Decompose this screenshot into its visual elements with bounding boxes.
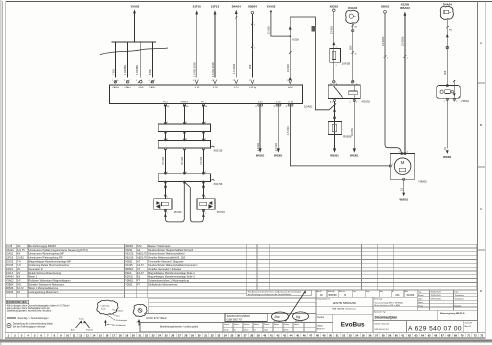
svg-text:1: 1: [167, 139, 168, 141]
svg-text:W5A03: W5A03: [400, 6, 410, 10]
svg-text:4: 4: [212, 80, 213, 82]
svg-text:10F1B: 10F1B: [6, 256, 14, 260]
svg-text:CAN-L: CAN-L: [149, 86, 156, 89]
svg-text:6: 6: [117, 80, 118, 82]
svg-text:Y5A02: Y5A02: [6, 278, 14, 282]
svg-text:Name: Name: [234, 324, 239, 326]
svg-text:Diez: Diez: [455, 292, 459, 294]
svg-text:Bearbeitungshinweise / zuletzt: Bearbeitungshinweise / zuletzt geänd.: [160, 326, 199, 329]
svg-text:76 OM: 76 OM: [180, 157, 184, 165]
svg-text:GND: GND: [139, 87, 144, 89]
svg-text:Y5A02: Y5A02: [266, 4, 275, 8]
svg-text:3: 3: [205, 172, 206, 174]
svg-text:15Y03: 15Y03: [217, 210, 226, 214]
svg-text:21F13: 21F13: [211, 4, 220, 8]
svg-text:1: 1: [167, 122, 168, 124]
svg-text:31: 31: [355, 54, 357, 56]
svg-text:Schwenkanschluss 1 Motorregelu: Schwenkanschluss 1 Motorregelung: [148, 278, 189, 282]
svg-text:K 30: K 30: [213, 87, 218, 89]
svg-text:A2: A2: [167, 105, 169, 108]
svg-text:1.5 RD-2005: 1.5 RD-2005: [193, 62, 197, 77]
svg-text:8: 8: [141, 80, 142, 82]
svg-text:13 916: 13 916: [330, 26, 334, 34]
svg-text:Nachtw: Nachtw: [455, 304, 462, 307]
svg-text:AB23.70: AB23.70: [137, 252, 147, 256]
svg-text:2: 2: [254, 48, 255, 50]
svg-text:2: 2: [186, 139, 187, 141]
svg-text:7: 7: [129, 80, 130, 82]
svg-text:5-M: 5-M: [137, 244, 141, 248]
svg-text:2: 2: [186, 172, 187, 174]
svg-text:1999-03-05: 1999-03-05: [431, 295, 442, 297]
svg-text:15Y02: 15Y02: [6, 259, 14, 263]
svg-text:X0203: X0203: [6, 290, 14, 294]
svg-text:Y0M01: Y0M01: [125, 278, 134, 282]
svg-text:CA600: CA600: [317, 324, 324, 327]
svg-text:Magnetklappe Motorbremsanlage: Magnetklappe Motorbremsanlage Stufe 2: [148, 271, 195, 275]
svg-text:PV +: PV +: [201, 101, 207, 103]
svg-text:X0201: X0201: [125, 248, 133, 252]
svg-text:K 15: K 15: [234, 87, 239, 89]
svg-text:X1205: X1205: [125, 263, 133, 267]
svg-text:X0203: X0203: [330, 4, 339, 8]
svg-text:7 BU: 7 BU: [111, 69, 115, 75]
svg-text:Tag: Tag: [418, 292, 421, 294]
svg-text:Y0501: Y0501: [125, 282, 133, 286]
svg-text:E1 A7: E1 A7: [137, 271, 144, 275]
svg-text:Prüfstempel: Prüfstempel: [116, 319, 128, 322]
svg-text:B: B: [480, 123, 482, 127]
svg-text:Y5A02: Y5A02: [130, 4, 139, 8]
svg-text:Bearb: Bearb: [418, 295, 424, 297]
svg-text:Steckverbinder Wabenschaltfeld: Steckverbinder Wabenschaltfeld Innenraum: [148, 263, 197, 267]
svg-text:A 30: A 30: [288, 86, 293, 89]
svg-text:15Y02: 15Y02: [174, 210, 183, 214]
svg-text:21-B2: 21-B2: [17, 256, 24, 260]
svg-text:9: 9: [154, 80, 155, 82]
svg-text:001: 001: [396, 294, 401, 297]
svg-text:EvoBus: EvoBus: [341, 321, 365, 328]
svg-text:006: 006: [248, 64, 252, 69]
svg-text:Dw.: Dw.: [275, 315, 281, 319]
svg-text:Thielmann: Thielmann: [455, 299, 464, 301]
svg-text:Amt: Amt: [71, 329, 75, 332]
svg-text:Alle Leitungen ohne Querschnit: Alle Leitungen ohne Querschnittsangaben …: [7, 304, 70, 307]
svg-text:Codierung Relais Stromverbrauc: Codierung Relais Stromverbraucher: [29, 263, 70, 267]
svg-text:Prüfdatum: Prüfdatum: [116, 324, 126, 327]
svg-text:4: 4: [149, 80, 150, 82]
svg-text:X63.56: X63.56: [214, 182, 223, 186]
svg-text:Magnetklappe Motorbremsanlage: Magnetklappe Motorbremsanlage Stufe 3: [148, 275, 195, 279]
svg-text:D4A04: D4A04: [6, 275, 14, 279]
svg-text:X5B04: X5B04: [6, 282, 14, 286]
svg-text:Bei Fahrzeugtyp 53/2/07: Bei Fahrzeugtyp 53/2/07: [29, 244, 57, 248]
svg-text:15Y03: 15Y03: [6, 263, 14, 267]
svg-text:SONDERZEICHEN:: SONDERZEICHEN:: [7, 302, 28, 304]
svg-text:1: 1: [407, 58, 408, 60]
svg-text:X63.55: X63.55: [125, 252, 134, 256]
svg-text:Datum: Datum: [284, 323, 290, 326]
svg-text:12.05: 12.05: [224, 329, 229, 331]
svg-text:Zeichn-Nr: Zeichn-Nr: [465, 322, 473, 325]
svg-text:Verteiler Wabenschaltfeld B. 1: Verteiler Wabenschaltfeld B. 15/1: [148, 256, 186, 260]
svg-text:21F13: 21F13: [6, 271, 14, 275]
svg-text:R0506: R0506: [6, 286, 14, 290]
svg-text:Kg.: Kg.: [296, 315, 301, 319]
svg-text:W0301: W0301: [350, 154, 359, 158]
svg-text:75 OM: 75 OM: [161, 157, 165, 165]
svg-text:4: 4: [356, 102, 357, 104]
svg-text:Motorregelung MR-PLD: Motorregelung MR-PLD: [440, 312, 465, 315]
svg-text:41/15: 41/15: [6, 244, 13, 248]
svg-text:5: 5: [350, 102, 351, 104]
svg-text:A: A: [480, 41, 482, 45]
svg-text:Name: Name: [274, 324, 279, 326]
svg-text:A3: A3: [186, 105, 188, 108]
svg-text:Umsteuerrel Fahrregelung FR: Umsteuerrel Fahrregelung FR: [29, 256, 63, 260]
svg-text:21F10: 21F10: [193, 4, 202, 8]
svg-text:K 30: K 30: [276, 101, 281, 103]
svg-text:13 916: 13 916: [286, 64, 290, 72]
svg-text:5-F: 5-F: [17, 278, 21, 282]
svg-text:M: M: [401, 160, 405, 165]
svg-text:Cabmatic: Cabmatic: [101, 304, 111, 307]
svg-text:2: 2: [186, 122, 187, 124]
svg-text:2: 2: [167, 213, 168, 215]
svg-text:W0301: W0301: [330, 154, 339, 158]
svg-text:X5B04: X5B04: [248, 4, 257, 8]
svg-text:03.07: 03.07: [244, 329, 249, 331]
svg-text:9-E: 9-E: [17, 282, 21, 286]
svg-text:Certex: Certex: [317, 316, 325, 319]
svg-text:74 OM: 74 OM: [199, 157, 203, 165]
svg-text:K 30: K 30: [289, 101, 294, 103]
svg-text:2: 2: [336, 65, 337, 67]
svg-text:W0501: W0501: [125, 267, 134, 271]
svg-text:D4A04: D4A04: [232, 4, 241, 8]
svg-text:1: 1: [205, 197, 206, 199]
svg-text:1: 1: [249, 80, 250, 82]
svg-text:Darstellung gesamt: stromlos b: Darstellung gesamt: stromlos bzw. druckl…: [7, 310, 52, 313]
svg-text:11 916: 11 916: [267, 26, 271, 34]
svg-text:W0301: W0301: [125, 244, 134, 248]
svg-text:1: 1: [167, 197, 168, 199]
svg-text:Leitungsstrang Motorraum: Leitungsstrang Motorraum: [29, 290, 59, 294]
svg-text:K02A: K02A: [292, 38, 299, 42]
svg-text:10A01: 10A01: [304, 105, 313, 109]
svg-text:1 RD/BK: 1 RD/BK: [135, 65, 139, 75]
svg-text:Umsteuerrel Motorregelung MF: Umsteuerrel Motorregelung MF: [29, 252, 65, 256]
svg-text:629 540 07 00: 629 540 07 00: [375, 329, 390, 331]
svg-text:7-K: 7-K: [17, 263, 21, 267]
svg-text:1.5 003: 1.5 003: [286, 126, 290, 135]
svg-text:CAN-H: CAN-H: [112, 86, 119, 89]
svg-text:1999-03-06: 1999-03-06: [431, 299, 442, 301]
svg-text:6: 6: [336, 83, 337, 85]
svg-text:Stromlaufplan: Stromlaufplan: [375, 316, 398, 320]
svg-text:1: 1: [387, 58, 388, 60]
svg-text:Y0M01: Y0M01: [418, 180, 427, 184]
svg-text:◄WTB 58501/98: ◄WTB 58501/98: [332, 301, 356, 305]
svg-text:X63.56: X63.56: [125, 256, 134, 260]
svg-text:Steckverbinder Hauptschaltfeld: Steckverbinder Hauptschaltfeld 32 Fach: [148, 248, 194, 252]
svg-text:bei den Fahrzeugtypen relevant: bei den Fahrzeugtypen relevant: [13, 326, 46, 329]
svg-text:12L 75: 12L 75: [17, 248, 25, 252]
svg-text:Gesamtumfang MR m. NFW-An.: Gesamtumfang MR m. NFW-An.: [375, 301, 404, 304]
svg-text:D4A04: D4A04: [443, 2, 452, 6]
svg-text:GSW 9007 NT: GSW 9007 NT: [227, 318, 243, 321]
svg-text:K0X32: K0X32: [362, 99, 371, 103]
svg-text:O4A24: O4A24: [6, 248, 15, 252]
svg-text:1: 1: [254, 25, 255, 27]
svg-text:K 30: K 30: [195, 87, 200, 89]
svg-text:Motor 3zyl bis an MR u. ABS: Motor 3zyl bis an MR u. ABS: [375, 304, 401, 307]
svg-text:3: 3: [392, 164, 393, 166]
svg-text:Trennstelle Klemord / Diagnose: Trennstelle Klemord / Diagnose: [148, 259, 184, 263]
svg-text:Teile-Nr / Sach-Nr:: Teile-Nr / Sach-Nr:: [374, 322, 390, 325]
svg-text:2: 2: [205, 213, 206, 215]
svg-text:Darstellung der Leiterverbindu: Darstellung der Leiterverbindung lötbar: [13, 323, 53, 326]
svg-text:Freig: Freig: [418, 305, 423, 307]
svg-text:6 BK: 6 BK: [148, 69, 152, 75]
svg-text:Norm: Norm: [284, 329, 289, 331]
svg-text:Generator D: Generator D: [29, 267, 43, 271]
svg-text:Y0501: Y0501: [461, 99, 470, 103]
svg-text:Blatt 06: Blatt 06: [465, 325, 471, 328]
svg-text:K0X32: K0X32: [125, 275, 133, 279]
svg-text:W2: W2: [355, 27, 358, 29]
svg-text:C7: C7: [137, 267, 141, 271]
svg-text:Lfd.Nr 9717 Wann: Lfd.Nr 9717 Wann: [146, 316, 168, 320]
svg-text:Wwm 1: Wwm 1: [29, 275, 38, 279]
svg-text:1 RD/BU: 1 RD/BU: [123, 65, 127, 75]
svg-text:W0301: W0301: [256, 154, 265, 158]
svg-text:2: 2: [124, 80, 125, 82]
svg-text:3: 3: [136, 80, 137, 82]
svg-text:Norm: Norm: [418, 302, 423, 304]
svg-text:AB23.70: AB23.70: [137, 256, 147, 260]
svg-text:Relais Stromverbraucherung: Relais Stromverbraucherung: [29, 271, 62, 275]
svg-text:Prüfamt: Prüfamt: [116, 309, 124, 312]
svg-text:10F1B: 10F1B: [342, 61, 350, 65]
svg-text:9 W 4g: 9 W 4g: [249, 87, 257, 89]
svg-text:4: 4: [193, 80, 194, 82]
svg-text:Masse 7 Motorraum: Masse 7 Motorraum: [148, 244, 171, 248]
svg-text:Serienltg / + Sonderleitung: Serienltg / + Sonderleitungen: [18, 317, 50, 320]
svg-text:PWM-P: PWM-P: [181, 101, 189, 103]
svg-text:31 9050: 31 9050: [401, 36, 405, 46]
svg-text:A 629 540 07 00: A 629 540 07 00: [408, 325, 462, 332]
svg-text:G4: G4: [17, 244, 21, 248]
svg-text:Pulldown Widerstand Magnetklap: Pulldown Widerstand Magnetklappen: [29, 278, 72, 282]
svg-text:W0301: W0301: [443, 155, 452, 159]
svg-text:K02A: K02A: [125, 271, 132, 275]
svg-text:62/006: 62/006: [407, 294, 415, 297]
svg-text:2: 2: [233, 80, 234, 82]
svg-text:bei Schaltung nur Umbau mit de: bei Schaltung nur Umbau mit der Zentral-…: [248, 293, 291, 296]
svg-text:050: 050: [349, 45, 353, 50]
svg-text:Thielmann: Thielmann: [455, 295, 464, 297]
svg-text:1.5 RD-2005: 1.5 RD-2005: [211, 62, 215, 77]
svg-text:Dez: Dez: [116, 315, 120, 317]
svg-text:NFW 9.9: NFW 9.9: [317, 329, 326, 331]
svg-text:K 30: K 30: [258, 101, 263, 103]
svg-text:Steckverbinder Wabenschaltfeld: Steckverbinder Wabenschaltfeld: [148, 252, 185, 256]
svg-text:Gepr: Gepr: [418, 299, 423, 301]
svg-text:Schalter Startsperre Motorraum: Schalter Startsperre Motorraum: [29, 282, 65, 286]
svg-text:1: 1: [336, 47, 337, 49]
svg-text:X0501: X0501: [381, 4, 390, 8]
svg-text:1: 1: [112, 80, 113, 82]
svg-text:X63.55: X63.55: [214, 149, 223, 153]
svg-text:3: 3: [205, 139, 206, 141]
svg-text:A1: A1: [205, 105, 207, 108]
svg-text:Stellzylinder Motorbremse: Stellzylinder Motorbremse: [148, 282, 178, 286]
svg-text:Alle Leitungen ohne Farbangabe: Alle Leitungen ohne Farbangaben sind sw: [7, 307, 50, 310]
svg-text:21F10: 21F10: [6, 267, 14, 271]
svg-text:Datum: Datum: [244, 323, 250, 326]
svg-text:006: 006: [443, 70, 447, 75]
svg-text:CAN-L: CAN-L: [125, 86, 132, 89]
svg-text:1.5 2006: 1.5 2006: [232, 63, 236, 74]
svg-text:Name: Name: [294, 324, 299, 326]
svg-text:W0501: W0501: [399, 197, 408, 201]
svg-text:D4A04: D4A04: [348, 6, 357, 10]
svg-text:Name: Name: [254, 324, 259, 326]
svg-text:10A01: 10A01: [6, 252, 14, 256]
svg-text:31 050: 31 050: [350, 128, 354, 136]
svg-text:B65/98: B65/98: [329, 294, 338, 297]
svg-text:Wwm 1 Motorstartklemme: Wwm 1 Motorstartklemme: [29, 286, 59, 290]
svg-text:7-K: 7-K: [17, 259, 21, 263]
svg-text:WfB GB5/IM Omnibusse: WfB GB5/IM Omnibusse: [332, 309, 357, 311]
svg-text:Benennung: Benennung: [374, 299, 382, 301]
svg-text:Gepr: Gepr: [366, 291, 370, 293]
svg-text:8: 8: [331, 83, 332, 85]
svg-text:Datum: Datum: [224, 323, 230, 326]
svg-text:W0301: W0301: [274, 154, 283, 158]
svg-text:2: 2: [356, 83, 357, 85]
svg-text:Gepr: Gepr: [264, 329, 268, 331]
svg-text:Prüfamt: Prüfamt: [86, 329, 93, 332]
svg-text:1: 1: [167, 172, 168, 174]
svg-text:Umsteuerrel Taktat programmier: Umsteuerrel Taktat programmierte Steueru…: [29, 248, 89, 252]
svg-text:S-01: S-01: [79, 318, 84, 320]
svg-text:A1 A7: A1 A7: [137, 263, 144, 267]
svg-text:2006-03-29: 2006-03-29: [431, 292, 442, 294]
svg-text:2: 2: [287, 80, 288, 82]
svg-text:31 9050: 31 9050: [381, 36, 385, 46]
svg-text:Datum: Datum: [264, 323, 270, 326]
svg-text:S-01: S-01: [101, 308, 106, 310]
svg-text:Verteiler Generator / Anlasser: Verteiler Generator / Anlasser: [148, 267, 182, 271]
svg-text:3: 3: [205, 122, 206, 124]
svg-text:PV 2: PV 2: [163, 101, 169, 103]
svg-text:61-72: 61-72: [17, 286, 24, 290]
svg-text:X0501: X0501: [125, 259, 133, 263]
svg-text:Magnetklappe Motorbremsanlage: Magnetklappe Motorbremsanlage MF: [29, 259, 72, 263]
